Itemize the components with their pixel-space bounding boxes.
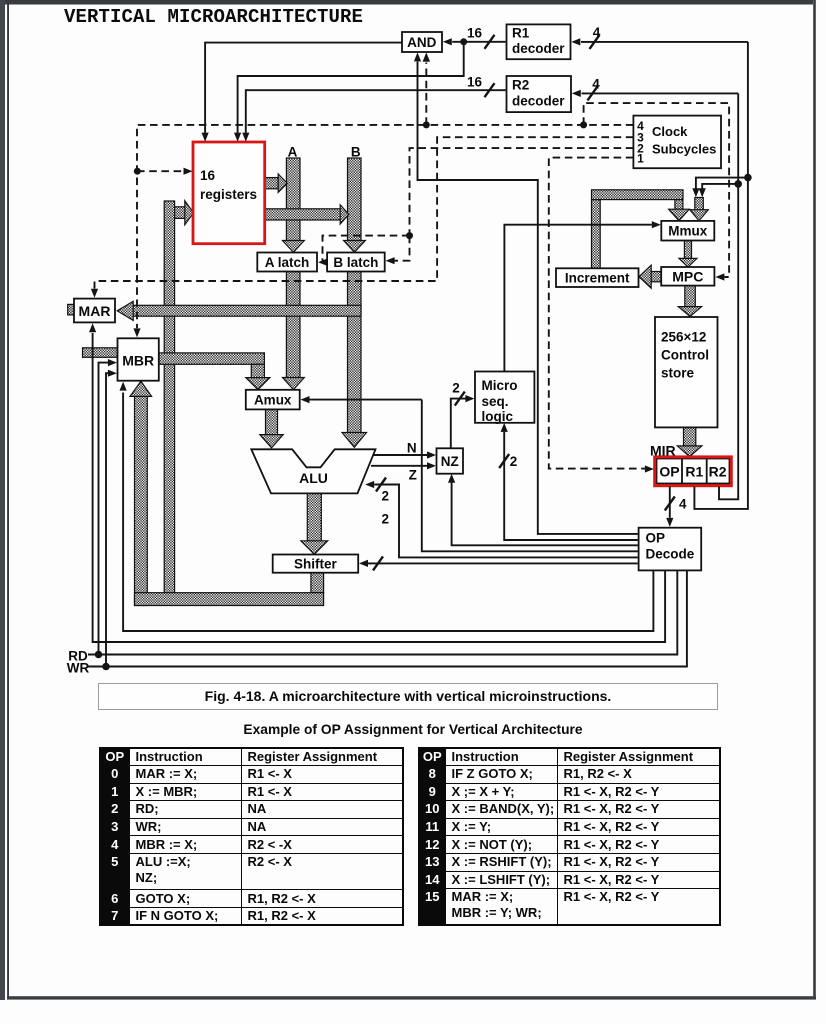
bus: Mmux left input arrow: [675, 200, 683, 210]
box MIR register cells OP R1 R2: [657, 459, 730, 484]
wire OP decode out 4 to WR: [88, 570, 687, 666]
wire ALU N flag to NZ: [373, 454, 427, 456]
wire AND output to 16 registers load: [205, 43, 402, 133]
dashed wire clock 2 to B latch: [394, 236, 410, 261]
box R1 decoder: [507, 24, 571, 59]
box Amux: [246, 390, 300, 410]
svg-text:16: 16: [467, 26, 483, 41]
bus: B bus upper segment: [348, 158, 362, 241]
left OP assignment table (OP 0-7): [99, 747, 404, 926]
wire OP decode to NZ load: [452, 483, 638, 546]
svg-text:R2: R2: [512, 78, 529, 93]
bus: MPC to Increment: [651, 272, 661, 282]
dashed wire clock 4 to registers: [137, 170, 184, 172]
svg-text:4: 4: [593, 25, 601, 40]
bus: MBR memory input: [83, 348, 118, 358]
svg-text:Shifter: Shifter: [294, 557, 338, 572]
bus: A bus lower segment (A latch to Amux): [286, 272, 300, 378]
bus: shifter output down leg: [311, 573, 324, 593]
title: [64, 6, 363, 28]
wire OP decode to Amux select: [309, 399, 422, 401]
bus: B bus to MAR: [133, 305, 361, 316]
table heading: [0, 722, 826, 737]
bus: registers to B bus arrow: [265, 209, 341, 220]
svg-text:B: B: [351, 145, 361, 160]
wire OP decode out 1 to MBR load: [123, 393, 653, 632]
wire ALU Z flag to NZ: [371, 465, 427, 467]
wire R1 line branch to Mmux: [696, 178, 748, 189]
bus: ALU to Shifter: [307, 493, 321, 541]
wire MIR R1 field to R1 decoder: [581, 41, 748, 43]
bus: Mmux right input short bus from decoder lines: [695, 198, 704, 211]
svg-text:MIR: MIR: [650, 442, 676, 458]
svg-text:AND: AND: [407, 35, 436, 50]
bus: MAR memory stub: [68, 304, 74, 315]
svg-text:2: 2: [452, 381, 460, 396]
svg-text:4: 4: [679, 497, 687, 512]
svg-text:R1: R1: [512, 26, 530, 41]
svg-text:store: store: [661, 366, 695, 381]
bus: Increment to Mmux horizontal: [592, 190, 684, 200]
svg-text:OP: OP: [659, 464, 679, 480]
wire Micro seq. logic to Mmux select: [504, 225, 651, 372]
svg-text:16: 16: [200, 168, 216, 183]
bus: Amux to ALU: [266, 409, 278, 435]
box Mmux: [661, 221, 714, 241]
bus: Increment to Mmux riser: [592, 200, 601, 269]
box A latch: [257, 253, 317, 272]
box NZ flags: [437, 448, 464, 473]
svg-text:2: 2: [382, 512, 390, 527]
wire OP decode out 3 to RD: [88, 570, 677, 654]
wire OP decode to Micro seq. logic: [504, 432, 638, 540]
dashed wire clock 2 to A latch: [323, 236, 410, 263]
wire OP decode to ALU function (2): [374, 485, 638, 558]
dashed wire clock 4 to AND: [425, 63, 427, 125]
bus: Control store to MIR: [684, 427, 696, 446]
svg-text:2: 2: [382, 489, 390, 504]
dashed wire clock subcycle 4 line: [137, 125, 633, 328]
wire R1 decoder output (16) to AND and registers: [452, 41, 505, 43]
figure caption: [98, 683, 718, 710]
box AND gate: [402, 32, 442, 52]
box 16 registers (red): [193, 142, 265, 244]
svg-text:Decode: Decode: [646, 547, 695, 562]
svg-text:ALU: ALU: [299, 470, 328, 486]
wire OP decode to AND: [418, 62, 638, 534]
svg-text:Increment: Increment: [565, 270, 630, 285]
svg-text:256×12: 256×12: [661, 330, 706, 345]
wire MIR OP field to OP decode (4): [669, 487, 671, 518]
box MBR: [118, 338, 159, 380]
right OP assignment table (OP 8-15): [418, 747, 721, 926]
box MAR: [74, 299, 115, 323]
svg-text:N: N: [407, 441, 417, 456]
wire MIR R2 field to R2 decoder: [582, 92, 739, 94]
svg-text:Z: Z: [409, 468, 417, 483]
box 256x12 Control store: [655, 317, 718, 427]
svg-text:1: 1: [637, 151, 644, 165]
svg-text:decoder: decoder: [512, 94, 565, 109]
box Shifter: [273, 555, 359, 573]
svg-text:registers: registers: [200, 187, 257, 202]
svg-text:A: A: [288, 145, 298, 160]
svg-text:Mmux: Mmux: [668, 223, 707, 238]
svg-text:Micro: Micro: [482, 378, 518, 393]
wire NZ to Micro seq. logic: [451, 399, 466, 449]
svg-text:2: 2: [510, 454, 518, 469]
svg-text:A latch: A latch: [265, 255, 310, 270]
box R2 decoder: [507, 76, 572, 112]
box B latch: [327, 253, 385, 272]
svg-text:R2: R2: [709, 464, 727, 480]
bus: shifter output riser to MBR: [135, 396, 148, 606]
svg-text:OP: OP: [646, 531, 666, 546]
dashed wire clock subcycle 1 to MIR load: [549, 158, 645, 469]
bus: registers to A bus arrow: [265, 178, 279, 189]
box OP Decode: [639, 528, 702, 571]
svg-text:seq.: seq.: [482, 394, 509, 409]
svg-text:MAR: MAR: [79, 303, 111, 319]
svg-text:Control: Control: [661, 348, 709, 363]
wire R2 decoder output (16) to registers: [246, 90, 506, 133]
svg-text:logic: logic: [482, 409, 514, 424]
slash marks: [485, 35, 495, 49]
page frame scan edges: [0, 0, 813, 5]
dashed wire clock 4 to MPC load: [584, 103, 730, 277]
bus: A bus upper segment: [286, 158, 300, 241]
svg-text:16: 16: [467, 75, 483, 90]
bus: MBR to Amux: [159, 353, 265, 364]
bus: Mmux to MPC: [684, 241, 691, 259]
arrowheads: [202, 133, 209, 142]
svg-text:Subcycles: Subcycles: [652, 142, 716, 157]
svg-text:decoder: decoder: [512, 41, 565, 56]
svg-text:B latch: B latch: [333, 255, 378, 270]
box Micro seq. logic: [475, 372, 534, 423]
wire R2 line branch to Mmux: [702, 184, 738, 189]
svg-text:MPC: MPC: [672, 268, 703, 284]
svg-text:R1: R1: [685, 464, 703, 480]
box Clock Subcycles: [633, 116, 721, 169]
bus: B bus lower segment (B latch to ALU): [348, 272, 362, 433]
bus: MPC to Control store: [685, 286, 696, 307]
bus: shifter output riser to 16 registers: [164, 201, 174, 603]
wire OP decode to Shifter control (2): [368, 562, 638, 564]
dashed wire clock subcycle 2 line: [410, 148, 634, 236]
box ALU (trapezoid with notch): [251, 449, 375, 493]
red highlight around MIR: [655, 457, 732, 486]
box MPC: [661, 267, 714, 286]
svg-text:Clock: Clock: [652, 124, 688, 139]
svg-text:WR: WR: [67, 660, 90, 675]
junction dots: [460, 38, 467, 45]
box Increment: [556, 268, 639, 287]
svg-text:4: 4: [592, 76, 600, 91]
svg-text:MBR: MBR: [122, 353, 154, 369]
wire OP decode out 2 to MAR load: [93, 333, 666, 642]
bus: shifter output horizontal: [135, 593, 324, 606]
svg-text:NZ: NZ: [441, 454, 459, 469]
dashed wire clock subcycle 3 to MAR: [95, 137, 634, 288]
svg-text:Amux: Amux: [254, 393, 292, 408]
